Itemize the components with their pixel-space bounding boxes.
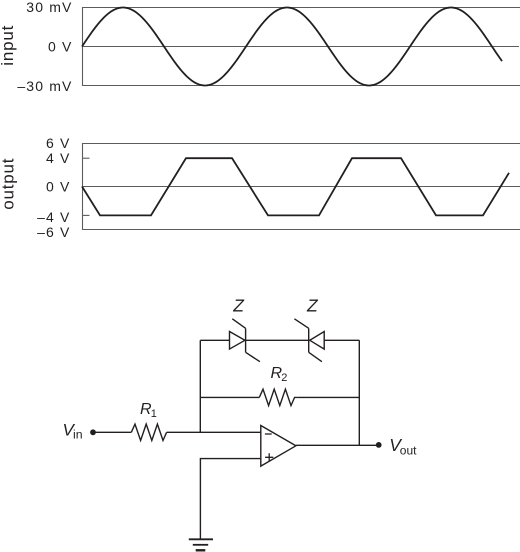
output plot 0 V line [82, 186, 520, 188]
svg-text:4 V: 4 V [46, 150, 70, 166]
wire top feedback right segment [324, 339, 359, 341]
svg-text:in: in [73, 427, 83, 441]
wire R2 right segment [297, 396, 359, 398]
zener Z2 bottom tail [309, 352, 322, 361]
output plot left axis [82, 143, 84, 230]
resistor R2 [259, 389, 297, 405]
zener Z1 bottom tail [246, 352, 260, 361]
svg-text:2: 2 [281, 372, 287, 384]
wire top feedback left segment [200, 339, 229, 341]
svg-text:–4 V: –4 V [37, 209, 70, 225]
tick -4 V [82, 214, 90, 216]
wire R1 to op-amp inverting input [167, 431, 261, 433]
input plot top border (30 mV level) [82, 7, 520, 9]
wire between zeners [246, 339, 309, 341]
Vout terminal dot [376, 442, 382, 448]
op-amp U1 triangle [261, 426, 296, 467]
svg-text:output: output [0, 158, 18, 210]
svg-text:Z: Z [232, 295, 245, 315]
wire node A up to feedback [199, 340, 201, 432]
output clipped waveform [82, 158, 509, 215]
wire op-amp + input to ground leg [200, 459, 260, 539]
input plot 0 V line [82, 46, 519, 48]
Vin terminal dot [90, 429, 96, 435]
svg-text:6 V: 6 V [46, 135, 70, 151]
zener Z2 triangle [310, 332, 324, 350]
output plot top border (6 V level) [82, 143, 520, 145]
zener Z2 cathode bar [308, 328, 310, 352]
svg-text:–6 V: –6 V [37, 224, 70, 240]
svg-text:Z: Z [306, 295, 319, 315]
svg-text:0 V: 0 V [48, 39, 72, 55]
svg-text:–30 mV: –30 mV [17, 78, 72, 94]
wire R2 left segment [200, 396, 259, 398]
zener Z1 triangle [230, 332, 245, 350]
wire right feedback vertical [358, 340, 360, 445]
svg-text:0 V: 0 V [46, 179, 70, 195]
wire op-amp output [296, 444, 376, 446]
svg-text:input: input [0, 25, 17, 66]
input sine waveform [82, 8, 502, 86]
zener Z1 cathode bar [245, 328, 247, 352]
input plot bottom border (-30 mV level) [82, 85, 520, 87]
ground [189, 539, 213, 550]
input plot left axis [82, 7, 84, 86]
svg-text:1: 1 [151, 408, 157, 420]
zener Z2 top tail [294, 319, 308, 329]
tick 4 V [82, 157, 90, 159]
resistor R1 [131, 424, 166, 440]
svg-text:out: out [400, 443, 417, 457]
op-amp minus sign [265, 433, 272, 435]
svg-text:30 mV: 30 mV [26, 0, 72, 15]
output plot bottom border (-6 V level) [82, 229, 520, 231]
zener Z1 top tail [232, 319, 245, 329]
wire Vin dot to R1 [96, 431, 132, 433]
op-amp plus sign [265, 453, 273, 461]
